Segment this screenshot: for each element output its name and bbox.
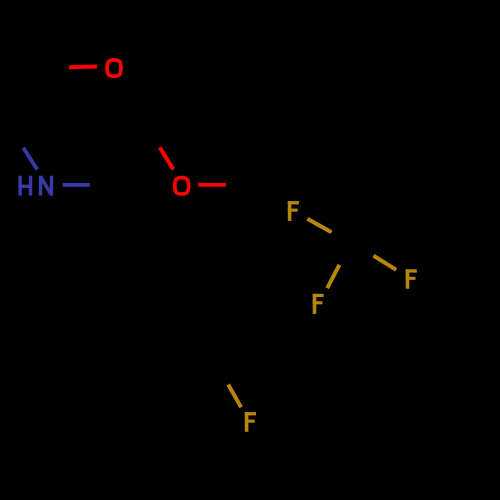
atom F1 (top fluorine of CF3) [288,201,299,221]
atom F3 (right fluorine of CF3) [406,269,417,289]
wire: bond N-C4 (blue half) [63,183,90,187]
wire: bond C2-O2 (red half) [160,147,174,169]
atom N (HN label, letter H) [18,176,32,196]
wire: bond CH3-O1 (red half) [69,65,97,70]
wire: bond C(CF3)-F3 (yellow half) [374,256,397,270]
atom O2 (ester oxygen) [175,178,189,194]
wire: bond Cring-F4 (yellow half) [228,385,241,408]
atom O1 (methoxy oxygen) [107,60,121,76]
wire: bond C3-N (blue half) [23,148,37,170]
atom F2 (lower-left fluorine of CF3) [313,294,324,314]
atom N (HN label, letter N) [41,176,52,196]
wire: bond O2-CH3 (red half) [198,183,226,187]
wire: bond F1-C(CF3) (yellow half) [307,219,331,232]
wire: bond C(CF3)-F2 (yellow half) [327,265,339,288]
atom F4 (aromatic fluorine) [245,412,256,432]
